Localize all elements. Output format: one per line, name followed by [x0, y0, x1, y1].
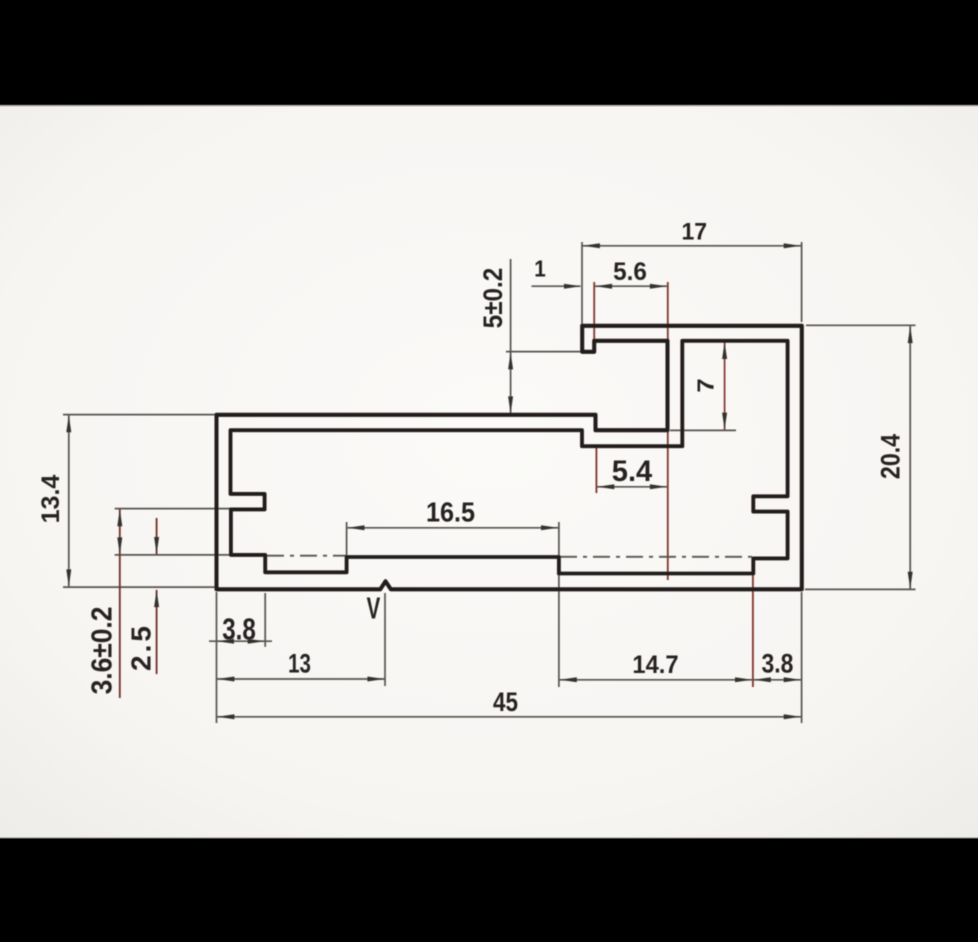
extension line 5.6/5.4 right (long) — [667, 282, 669, 340]
extension line 20.4 bottom — [805, 588, 916, 590]
extension line 5.6 left — [593, 282, 595, 351]
extension line 17 right — [801, 242, 803, 322]
dimension line 13 — [217, 678, 385, 680]
paper sheet — [0, 105, 978, 839]
svg-text:13.4: 13.4 — [37, 475, 65, 524]
svg-text:5.6: 5.6 — [613, 259, 647, 286]
dash-dot centerline right segment — [560, 556, 752, 558]
profile inner cavity boundary — [231, 341, 788, 574]
svg-text:3.6±0.2: 3.6±0.2 — [85, 607, 117, 695]
svg-text:3.8: 3.8 — [762, 649, 794, 679]
extension line 7 bottom — [670, 429, 736, 431]
dimension line 5.4 — [597, 486, 668, 488]
svg-text:2.5: 2.5 — [126, 623, 157, 671]
dimension line 16.5 — [347, 527, 559, 529]
extension line 5.4 left — [595, 448, 597, 493]
svg-text:14.7: 14.7 — [632, 651, 678, 679]
dimension line 13.4 — [68, 415, 70, 587]
dimension line 17 — [582, 245, 801, 247]
svg-text:5.4: 5.4 — [612, 455, 653, 488]
extension line bottom-left shared (45/13/3.8) — [216, 592, 218, 723]
svg-text:1: 1 — [534, 255, 546, 281]
extension line 3.6 bottom (floor) — [115, 554, 232, 556]
svg-text:5±0.2: 5±0.2 — [479, 268, 508, 329]
dimension line 7 — [724, 342, 726, 430]
extension line 20.4 top — [806, 324, 916, 326]
extension line 14.7/3.8 shared (red) — [752, 574, 754, 687]
extension line 3.8 left inner — [264, 593, 266, 647]
dimension line 3.8 right — [753, 679, 801, 681]
profile outline outer boundary with V notch — [217, 326, 802, 590]
dimension line 1 (arrow to hook face) — [532, 285, 581, 287]
svg-text:7: 7 — [694, 378, 719, 392]
extension line 16.5 left — [346, 522, 348, 560]
extension line 5±0.2 (hook bottom) — [506, 351, 582, 353]
svg-text:20.4: 20.4 — [876, 434, 906, 479]
bottom letterbox band — [0, 839, 978, 942]
dimension line 5.6 — [595, 285, 668, 287]
extension line 16.5/14.7 shared (long) — [558, 522, 560, 687]
svg-text:V: V — [367, 590, 381, 625]
dash-dot centerline left segment — [267, 555, 346, 557]
top letterbox band — [0, 0, 978, 105]
svg-text:3.8: 3.8 — [222, 612, 256, 647]
extension line 13.4 top — [63, 414, 216, 416]
dimension line 14.7 — [559, 679, 752, 681]
svg-text:16.5: 16.5 — [426, 496, 475, 528]
extension line 13 right (below V notch) — [384, 593, 386, 686]
dimension line 3.8 left — [209, 640, 272, 642]
dimension line 3.6±0.2 with leader — [119, 509, 121, 555]
svg-text:45: 45 — [493, 688, 518, 717]
extension line bottom-right shared (45/3.8) — [801, 592, 803, 723]
extension line 3.6 top (tab bottom) — [115, 508, 264, 510]
svg-text:17: 17 — [681, 218, 707, 245]
dimension line 20.4 — [909, 326, 911, 590]
dimension 2.5 upper shaft — [156, 518, 158, 554]
extension line 17 left — [581, 242, 583, 324]
svg-text:13: 13 — [288, 649, 311, 679]
dimension line 5±0.2 — [510, 259, 512, 414]
dimension line 45 — [217, 716, 801, 718]
extension line 13.4 bottom — [63, 586, 216, 588]
dimension 2.5 lower shaft — [156, 590, 158, 674]
